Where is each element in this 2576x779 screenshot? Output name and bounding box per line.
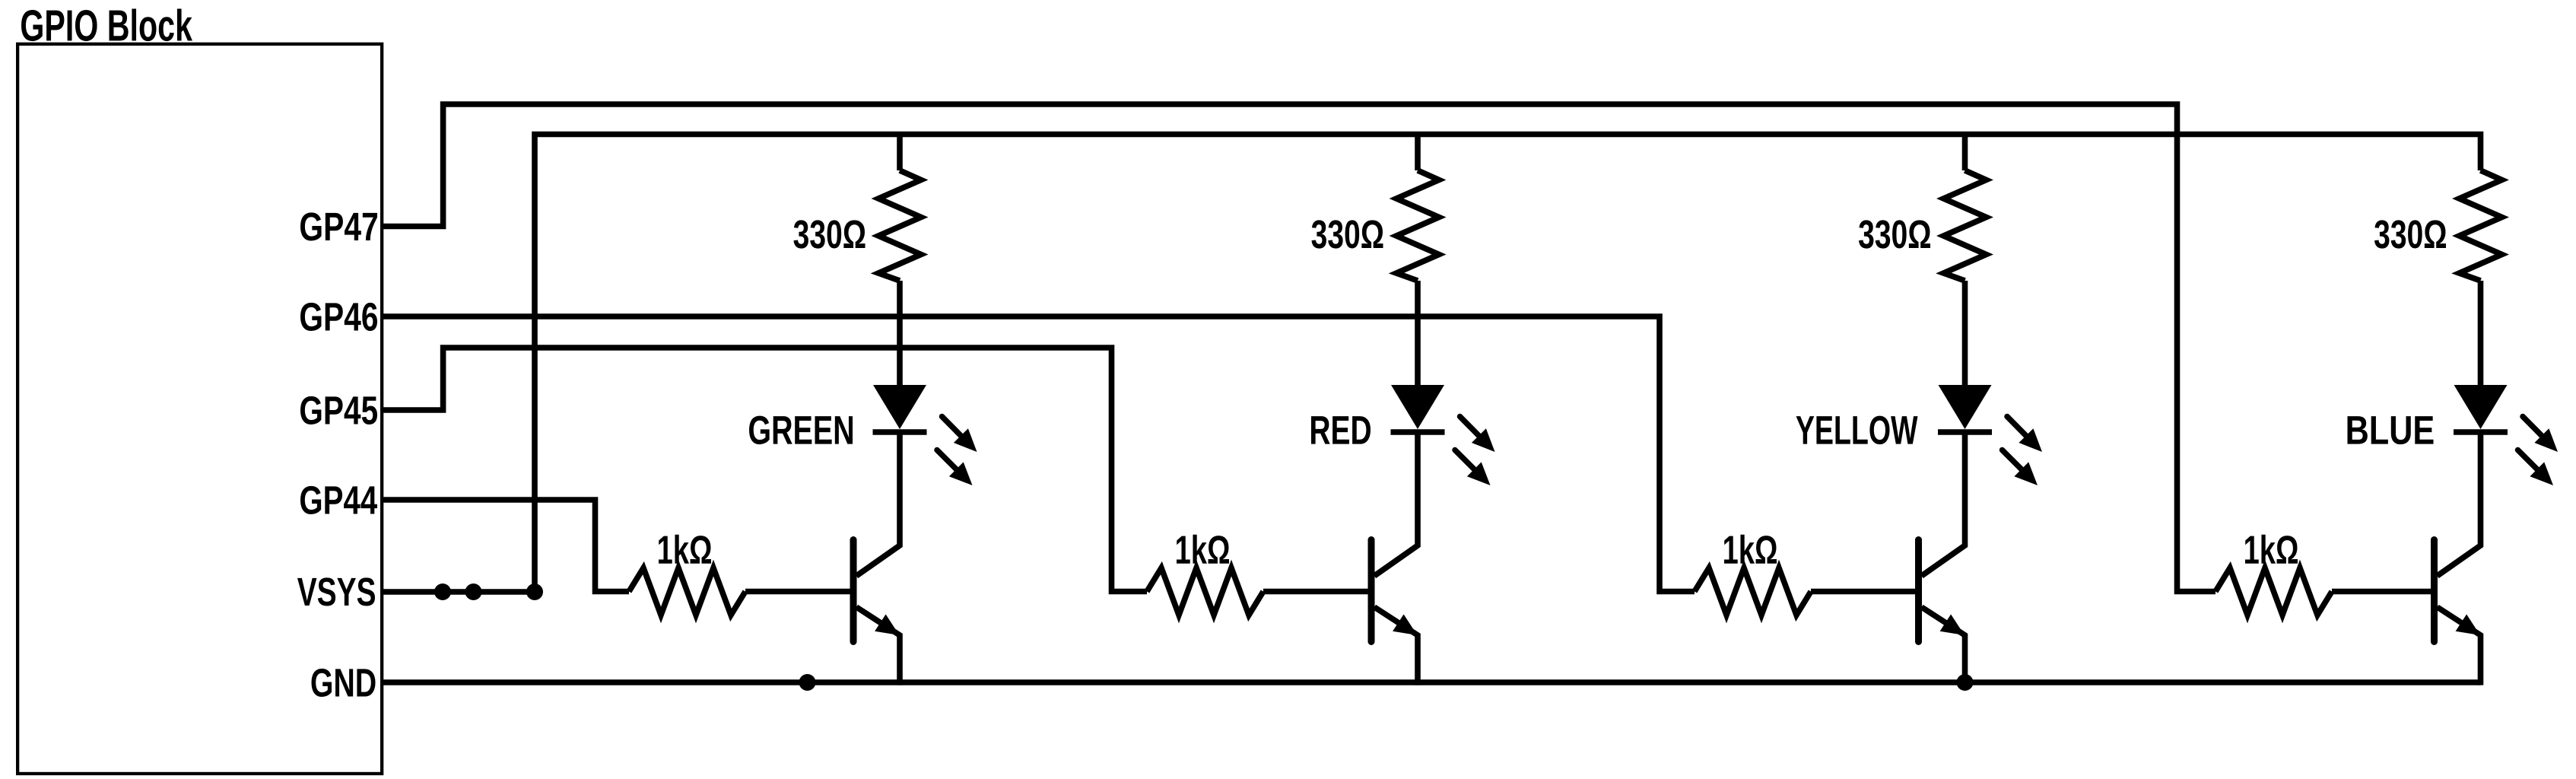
- transistor Q2 RED collector: [1374, 432, 1418, 576]
- label GREEN: [749, 416, 853, 445]
- LED YELLOW light arrow 1: [2007, 417, 2031, 441]
- resistor 1kΩ (GREEN base): [629, 568, 745, 615]
- LED RED cathode bar: [1391, 429, 1445, 435]
- label 1kΩ (GREEN): [659, 535, 711, 564]
- label 1kΩ (YELLOW): [1724, 535, 1777, 564]
- transistor Q2 RED base bar: [1368, 540, 1375, 642]
- transistor Q4 BLUE emitter: [2438, 607, 2481, 685]
- LED RED light arrow 2: [1455, 450, 1479, 475]
- label BLUE: [2348, 416, 2434, 444]
- pin label GP46: [300, 303, 377, 331]
- label 330Ω (BLUE): [2374, 220, 2446, 248]
- label 1kΩ (RED): [1177, 535, 1229, 564]
- wire resistor to LED (BLUE): [2478, 281, 2484, 387]
- LED GREEN cathode bar: [873, 429, 927, 435]
- wire resistor to LED (YELLOW): [1962, 281, 1968, 387]
- LED YELLOW cathode bar: [1938, 429, 1992, 435]
- wire 1kΩ to base (RED): [1263, 589, 1369, 595]
- transistor Q4 BLUE emitter arrowhead: [2456, 615, 2480, 636]
- LED GREEN light arrow 2: [937, 450, 961, 475]
- LED GREEN triangle: [873, 385, 926, 429]
- wire VSYS rail tap to resistor (GREEN): [897, 135, 903, 171]
- LED YELLOW light arrow 2: [2003, 450, 2027, 475]
- LED RED triangle: [1391, 385, 1444, 429]
- wire GP46 net (pin rail to YELLOW base feed): [382, 316, 1695, 592]
- junction dot on GND at YELLOW emitter: [1957, 674, 1974, 691]
- label 330Ω (YELLOW): [1859, 220, 1930, 248]
- transistor Q3 YELLOW emitter: [1922, 607, 1965, 685]
- LED BLUE cathode bar: [2454, 429, 2508, 435]
- pin label VSYS: [297, 577, 375, 606]
- pin label GP44: [300, 486, 377, 514]
- wire resistor to LED (GREEN): [897, 281, 903, 387]
- resistor 330Ω (GREEN anode): [878, 170, 921, 281]
- wire VSYS rail tap to resistor (RED): [1415, 135, 1421, 171]
- LED GREEN light arrow 1: [942, 417, 967, 441]
- GPIO block U1 outline: [17, 44, 382, 774]
- transistor Q2 RED emitter arrowhead: [1393, 615, 1417, 636]
- transistor Q2 RED emitter: [1374, 607, 1418, 685]
- resistor 330Ω (YELLOW anode): [1944, 170, 1987, 281]
- pin label GND: [312, 669, 376, 697]
- label 1kΩ (BLUE): [2245, 535, 2298, 564]
- wire resistor to LED (RED): [1415, 281, 1421, 387]
- wire GP44 net (pin to GREEN base feed): [382, 500, 629, 592]
- LED BLUE light arrow 2: [2518, 450, 2543, 475]
- LED BLUE triangle: [2454, 385, 2508, 429]
- wire 1kΩ to base (GREEN): [745, 589, 851, 595]
- LED YELLOW triangle: [1939, 385, 1992, 429]
- resistor 330Ω (RED anode): [1396, 170, 1439, 281]
- wire GND net (pin rail across): [382, 679, 2481, 685]
- transistor Q1 GREEN emitter arrowhead: [875, 615, 899, 636]
- junction dot on GND near GREEN: [799, 674, 816, 691]
- label 330Ω (RED): [1312, 220, 1383, 248]
- transistor Q1 GREEN emitter: [856, 607, 900, 685]
- GPIO block title: [21, 8, 192, 41]
- transistor Q4 BLUE base bar: [2431, 540, 2438, 642]
- wire GP45 net (pin, riser up, rail to RED base feed): [382, 348, 1147, 592]
- transistor Q1 GREEN collector: [856, 432, 900, 576]
- transistor Q1 GREEN base bar: [850, 540, 857, 642]
- resistor 330Ω (BLUE anode): [2460, 170, 2502, 281]
- junction dot VSYS row at riser: [526, 583, 543, 600]
- LED RED light arrow 1: [1460, 417, 1485, 441]
- junction dot on VSYS row: [465, 583, 482, 600]
- label 330Ω (GREEN): [794, 220, 866, 248]
- transistor Q3 YELLOW base bar: [1915, 540, 1922, 642]
- transistor Q3 YELLOW emitter arrowhead: [1940, 615, 1965, 636]
- wire 1kΩ to base (YELLOW): [1811, 589, 1917, 595]
- label YELLOW: [1796, 416, 1918, 445]
- junction dot on VSYS row: [434, 583, 451, 600]
- wire VSYS rail tap to resistor (YELLOW): [1962, 135, 1968, 171]
- resistor 1kΩ (YELLOW base): [1695, 568, 1811, 615]
- LED BLUE light arrow 1: [2523, 417, 2547, 441]
- transistor Q4 BLUE collector: [2438, 432, 2481, 576]
- resistor 1kΩ (BLUE base): [2215, 568, 2332, 615]
- transistor Q3 YELLOW collector: [1922, 432, 1965, 576]
- wire GP47 net (pin to top rail to BLUE base feed): [382, 104, 2215, 592]
- pin label GP47: [300, 212, 377, 240]
- pin label GP45: [300, 396, 377, 424]
- wire 1kΩ to base (BLUE): [2332, 589, 2432, 595]
- label RED: [1311, 416, 1371, 444]
- wire VSYS net (pin row, riser, VSYS rail): [382, 135, 2481, 593]
- resistor 1kΩ (RED base): [1147, 568, 1263, 615]
